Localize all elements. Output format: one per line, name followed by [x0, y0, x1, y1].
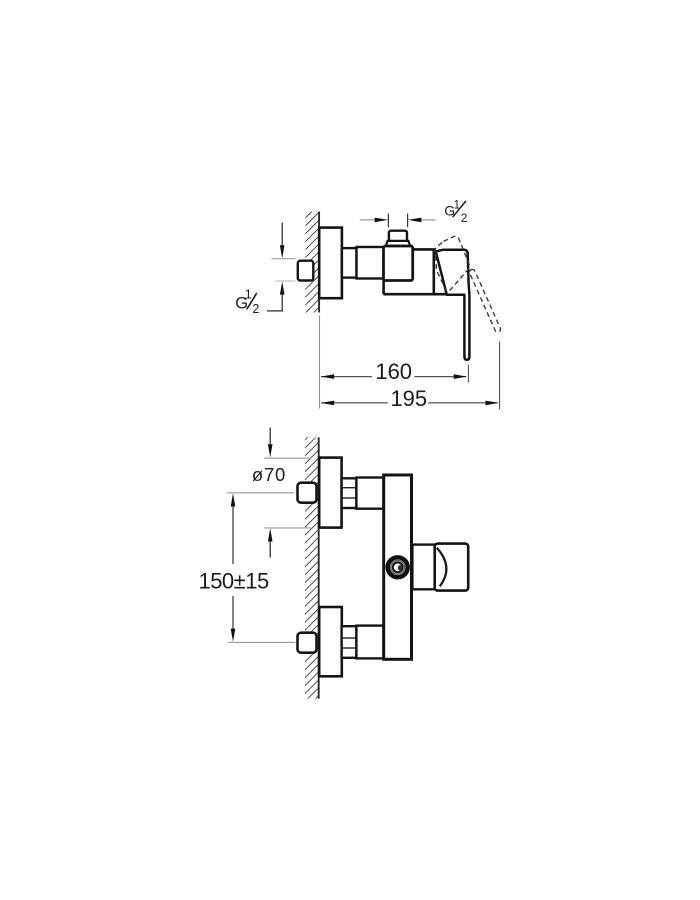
- label G1/2 left: [235, 288, 259, 317]
- cap collar (top view): [386, 241, 410, 246]
- svg-text:2: 2: [461, 211, 468, 225]
- dashed lever in raised position (top view): [469, 269, 502, 333]
- diverter screw detail (front view): [388, 557, 408, 577]
- handle neck (front view): [412, 545, 434, 590]
- supply pipe stub (top view): [298, 261, 314, 281]
- top escutcheon (front view): [319, 458, 341, 528]
- dimension diameter 70: [252, 428, 311, 558]
- svg-text:ø70: ø70: [252, 464, 286, 485]
- svg-text:160: 160: [375, 359, 412, 384]
- handle valve + lever (solid, top view): [436, 250, 470, 360]
- svg-text:1: 1: [245, 288, 252, 302]
- handle knob face arc (front view): [437, 548, 447, 587]
- mixer body (top view): [384, 249, 465, 294]
- wall flange / escutcheon (top view): [319, 228, 342, 299]
- bottom connection pipe (front view): [356, 626, 383, 659]
- wall hatch (front view): [305, 437, 319, 698]
- mixer body (front view): [384, 475, 412, 659]
- coupling nut (top view): [342, 248, 357, 278]
- bottom escutcheon (front view): [319, 607, 342, 676]
- connection pipe (top view): [357, 247, 384, 279]
- dimension 195: [321, 342, 500, 412]
- dimension G1/2 top (cap thread): [360, 214, 436, 228]
- dimension 150 +/- 15: [198, 493, 295, 643]
- dimension G1/2 left (supply stub): [267, 223, 296, 311]
- top supply stub (front view): [298, 483, 317, 503]
- handle knob (front view): [435, 544, 469, 591]
- svg-text:150±15: 150±15: [198, 569, 269, 594]
- svg-text:2: 2: [252, 302, 259, 316]
- svg-text:195: 195: [390, 386, 427, 411]
- label G1/2 top right: [444, 199, 468, 225]
- dimension 160: [321, 359, 469, 384]
- top coupling nut (front view): [342, 478, 357, 508]
- shower outlet cap (top view): [389, 231, 407, 242]
- dashed handle in raised position (top view): [435, 236, 469, 292]
- top connection pipe (front view): [356, 478, 383, 509]
- bottom supply stub (front view): [298, 633, 317, 653]
- cartridge housing (top view): [384, 246, 413, 281]
- bottom coupling nut (front view): [342, 626, 357, 658]
- wall face extension line (top view, below hatch): [319, 316, 321, 409]
- wall hatch (top view): [305, 212, 319, 313]
